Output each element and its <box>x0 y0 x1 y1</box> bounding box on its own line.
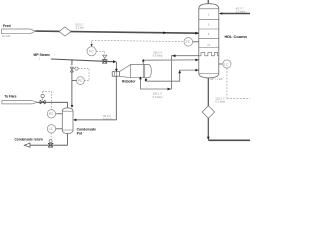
svg-text:LC: LC <box>224 62 229 66</box>
svg-text:5.2 barg: 5.2 barg <box>236 9 246 13</box>
svg-text:MP Steam: MP Steam <box>34 53 50 57</box>
svg-text:PC: PC <box>78 79 83 83</box>
svg-text:PC: PC <box>49 112 54 116</box>
svg-text:Condensate return: Condensate return <box>15 137 43 141</box>
svg-text:LF-100: LF-100 <box>2 34 11 38</box>
svg-text:6.5 barg: 6.5 barg <box>153 54 163 58</box>
svg-text:6.1 bars: 6.1 bars <box>215 99 225 103</box>
svg-text:6.4 bars: 6.4 bars <box>103 117 113 121</box>
svg-text:FC: FC <box>89 50 94 54</box>
svg-text:Pot: Pot <box>77 132 83 136</box>
svg-text:TC: TC <box>186 40 191 44</box>
svg-text:HDL Coumn: HDL Coumn <box>225 34 248 39</box>
svg-text:9.2 bar: 9.2 bar <box>76 25 84 29</box>
svg-text:155.1 C: 155.1 C <box>153 92 162 96</box>
svg-text:6.3 bars: 6.3 bars <box>153 95 163 99</box>
svg-text:Reboiler: Reboiler <box>122 79 136 83</box>
svg-text:To Flare: To Flare <box>4 95 16 99</box>
svg-text:Feed: Feed <box>3 24 11 28</box>
svg-text:ΔP = 1 kW: ΔP = 1 kW <box>210 77 223 81</box>
svg-text:LC: LC <box>49 127 54 131</box>
